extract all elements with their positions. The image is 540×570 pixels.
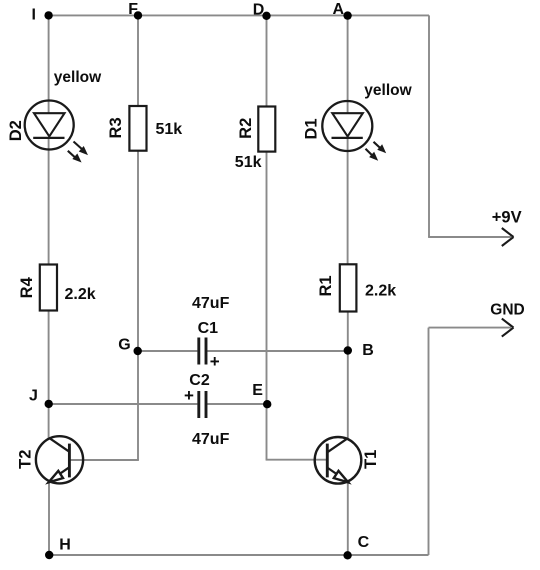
node I	[44, 11, 52, 19]
svg-text:47uF: 47uF	[192, 431, 230, 448]
capacitor C2 plates	[199, 391, 206, 418]
svg-text:J: J	[29, 388, 38, 405]
node A	[343, 11, 351, 19]
svg-text:E: E	[252, 382, 263, 399]
node G	[134, 347, 142, 355]
svg-text:R2: R2	[237, 118, 255, 139]
node F	[134, 11, 142, 19]
node E	[263, 400, 271, 408]
svg-text:F: F	[128, 1, 138, 18]
wire top rail I-F-D-A to right	[49, 14, 429, 16]
svg-text:C1: C1	[198, 320, 219, 337]
svg-text:D1: D1	[303, 118, 321, 139]
node J	[45, 400, 53, 408]
wire left rail R4 to J to T2 collector	[48, 311, 50, 439]
svg-text:H: H	[59, 537, 71, 554]
wire bottom rail H to C to right	[49, 554, 429, 556]
svg-text:+: +	[210, 352, 220, 371]
wire T1 base horizontal	[266, 459, 328, 461]
svg-text:C: C	[358, 534, 370, 551]
capacitor C1 plates	[199, 338, 206, 365]
wire T1 emitter to C	[347, 481, 349, 555]
LED D1 symbol	[322, 101, 385, 160]
wire D rail R2 to E to corner	[266, 152, 268, 460]
svg-text:D: D	[253, 1, 265, 18]
svg-text:B: B	[362, 342, 374, 359]
node B	[344, 346, 352, 354]
wire T2 emitter to H	[48, 481, 50, 555]
svg-text:51k: 51k	[235, 154, 262, 171]
transistor T1 symbol	[315, 437, 362, 484]
svg-text:2.2k: 2.2k	[65, 286, 96, 303]
wire A rail A to D1	[347, 15, 349, 113]
transistor T2 symbol	[36, 436, 83, 483]
node C	[343, 551, 351, 559]
svg-text:T1: T1	[362, 450, 380, 469]
svg-text:2.2k: 2.2k	[365, 283, 396, 300]
GND arrow head	[502, 319, 514, 337]
svg-text:R3: R3	[107, 117, 125, 138]
wire GND rail horizontal	[429, 327, 512, 329]
svg-text:51k: 51k	[156, 121, 183, 138]
node D	[262, 12, 270, 20]
wire GND rail vertical	[428, 328, 430, 555]
svg-text:+: +	[184, 386, 194, 405]
resistor R3 body	[129, 106, 146, 151]
wire C2 to E	[207, 403, 267, 405]
wire J to C2	[49, 403, 198, 405]
svg-text:T2: T2	[16, 450, 34, 469]
svg-text:GND: GND	[490, 301, 524, 318]
wire G to C1	[138, 350, 197, 352]
wire +9V rail vertical	[428, 15, 430, 237]
+9V arrow head	[502, 228, 514, 246]
wire left rail D2 to R4	[48, 138, 50, 265]
wire +9V rail horizontal	[428, 236, 511, 238]
wire A rail R1 to B to T1 collector	[347, 312, 349, 439]
svg-text:D2: D2	[7, 120, 25, 141]
resistor R2 body	[258, 107, 275, 152]
wire T2 base horizontal	[70, 459, 139, 461]
svg-text:R1: R1	[317, 275, 335, 296]
svg-text:I: I	[32, 7, 36, 24]
wire F rail F to R3	[137, 15, 139, 106]
svg-text:yellow: yellow	[364, 82, 412, 99]
resistor R1 body	[340, 264, 357, 311]
svg-text:47uF: 47uF	[192, 295, 230, 312]
svg-text:yellow: yellow	[54, 69, 102, 86]
wire A rail D1 to R1	[347, 139, 349, 265]
LED D2 symbol	[25, 101, 87, 162]
svg-text:R4: R4	[18, 276, 36, 298]
svg-text:G: G	[118, 337, 130, 354]
svg-text:A: A	[333, 1, 345, 18]
wire left rail I to D2	[48, 15, 50, 113]
svg-text:+9V: +9V	[492, 209, 522, 227]
node H	[45, 551, 53, 559]
wire C1 to B	[207, 350, 348, 352]
wire D rail D to R2	[266, 15, 268, 106]
resistor R4 body	[40, 265, 57, 311]
wire F rail R3 to G to corner	[137, 151, 139, 460]
